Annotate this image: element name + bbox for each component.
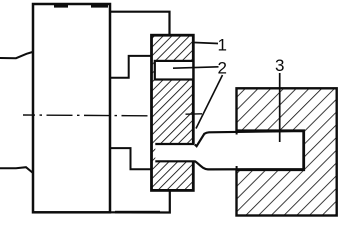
svg-text:1: 1 xyxy=(218,36,227,55)
svg-text:2: 2 xyxy=(218,59,227,78)
svg-text:3: 3 xyxy=(275,56,284,75)
